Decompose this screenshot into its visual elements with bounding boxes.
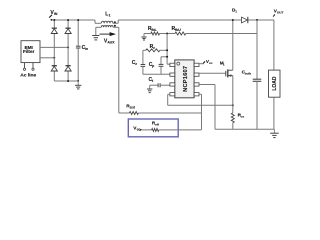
node bridge left top: [53, 19, 55, 21]
svg-text:z: z: [135, 62, 137, 66]
inductor L1 main winding: [101, 21, 113, 23]
svg-text:NCP1607: NCP1607: [183, 66, 189, 92]
ground input bus: [77, 81, 79, 85]
wire Vcc to Roff: [141, 129, 151, 131]
wire CP stub: [161, 56, 167, 58]
phase dot main: [114, 21, 116, 23]
inductor L1 aux winding: [101, 26, 113, 28]
resistor RfbL: [151, 32, 160, 35]
capacitor Cin: [77, 20, 79, 46]
phase dot aux: [114, 25, 116, 27]
wire bottom rail: [215, 128, 274, 130]
svg-text:bulk: bulk: [245, 72, 252, 76]
wire pin5 zcd: [199, 93, 202, 95]
EMI filter box: [21, 41, 40, 63]
resistor Rzcd: [129, 112, 138, 115]
wire pin8 Vcc: [199, 63, 204, 65]
wire EMI lower output: [40, 57, 54, 59]
svg-text:OUT: OUT: [277, 11, 284, 15]
svg-text:1: 1: [109, 14, 111, 18]
arrow Vaux: [100, 33, 111, 35]
diode bridge top-right: [66, 27, 71, 29]
svg-text:Filter: Filter: [23, 49, 35, 54]
wire M1 drain up: [232, 20, 234, 70]
capacitor Ct: [150, 84, 158, 86]
resistor Roff: [152, 128, 159, 131]
LOAD box: [269, 70, 281, 97]
transistor Q M1: [225, 71, 227, 77]
wire bridge left leg: [53, 20, 55, 81]
wire Rzcd to zcd line: [138, 112, 201, 114]
svg-text:in: in: [85, 47, 88, 51]
resistor Rcs: [231, 113, 234, 123]
svg-text:AUX: AUX: [107, 41, 115, 45]
node Vin: [51, 19, 53, 21]
wire pin4 cs: [168, 93, 170, 95]
node EMI-upper to right leg: [67, 46, 69, 48]
node bottom bus right-leg: [67, 80, 69, 82]
diode bridge top-left: [52, 27, 57, 29]
op-amp U1 NCP1607 body: [175, 60, 194, 98]
EMI ac terminals: [24, 63, 26, 69]
capacitor CP: [159, 63, 164, 65]
node Vcc box tick: [140, 129, 142, 131]
svg-text:fbL: fbL: [151, 28, 157, 32]
svg-text:1: 1: [235, 10, 237, 14]
wire bottom bus left: [54, 80, 78, 82]
node Vcc tick: [203, 61, 205, 63]
wire L1 to top rail: [113, 22, 118, 24]
wire pin6 gnd: [199, 84, 215, 86]
node FB junction: [166, 33, 168, 35]
wire RfbL to junction: [160, 33, 175, 35]
resistor RZ: [143, 49, 146, 51]
node VIN tick: [49, 15, 52, 18]
node Cbulk top: [256, 19, 258, 21]
node Vout tick: [273, 14, 275, 16]
node EMI-lower to left leg: [53, 57, 55, 59]
capacitor CZ: [141, 64, 146, 66]
svg-text:1: 1: [223, 63, 225, 67]
svg-text:cs: cs: [241, 115, 245, 119]
svg-text:LOAD: LOAD: [272, 76, 278, 91]
ground output: [273, 129, 275, 133]
wire Roff to zcd line: [159, 129, 202, 131]
wire M1 source down: [232, 76, 234, 113]
svg-text:fbU: fbU: [175, 28, 181, 32]
wire aux left to ground: [96, 26, 102, 28]
wire aux right down: [113, 26, 119, 28]
pins U1: [170, 63, 175, 66]
ground RfbL: [143, 34, 145, 38]
wire top rail left: [51, 19, 95, 21]
node drain at rail: [232, 19, 234, 21]
ground aux winding: [92, 35, 99, 37]
node bridge right top: [67, 19, 69, 21]
wire EMI upper output: [40, 46, 68, 48]
wire top rail right: [118, 19, 274, 21]
wire bridge right leg: [67, 20, 69, 81]
diode bridge bottom-left: [52, 65, 57, 67]
ground Ct: [149, 85, 151, 89]
wire gnd to RfbL: [144, 33, 151, 35]
wire aux corner to Rzcd: [119, 112, 130, 114]
node CP at FB line: [166, 56, 168, 58]
node RZ at FB line: [166, 49, 168, 51]
svg-text:p: p: [152, 64, 154, 68]
wire FB down to pin1: [166, 34, 168, 65]
wire Vout corner down: [273, 20, 275, 70]
node Cin bottom: [77, 80, 79, 82]
wire LOAD down: [273, 97, 275, 129]
wire L1 jog: [94, 20, 96, 23]
svg-text:zcd: zcd: [130, 105, 135, 109]
wire RZ left leg: [142, 50, 144, 64]
node Cin top: [77, 19, 79, 21]
svg-text:Ac line: Ac line: [20, 72, 36, 78]
svg-text:IN: IN: [54, 12, 58, 16]
box Roff option: [128, 119, 178, 137]
svg-text:cc: cc: [137, 128, 141, 132]
capacitor Cbulk: [256, 20, 258, 79]
wire RfbU to Vout node: [186, 33, 257, 35]
diode D1: [242, 17, 248, 23]
svg-text:z: z: [153, 46, 155, 50]
wire control pin2: [143, 73, 170, 75]
node cs at source: [232, 104, 234, 106]
wire pin7 drive to gate: [199, 72, 226, 74]
svg-text:cc: cc: [209, 61, 213, 65]
diode bridge bottom-right: [66, 65, 71, 67]
resistor RfbU: [175, 32, 186, 35]
